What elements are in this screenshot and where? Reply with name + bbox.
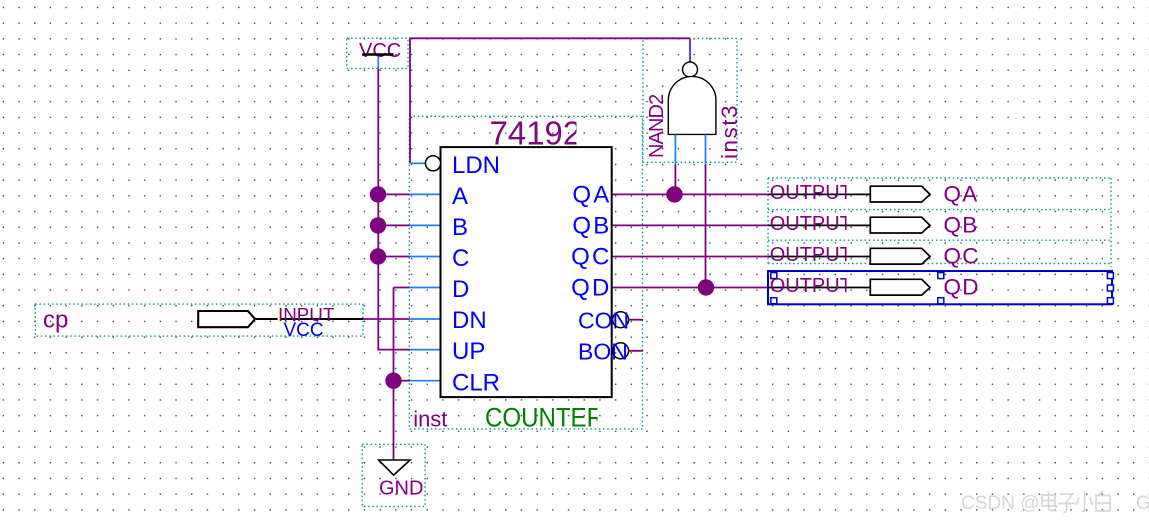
svg-text:NAND2: NAND2 [646, 94, 668, 158]
svg-text:VCC: VCC [359, 40, 401, 62]
svg-text:A: A [452, 183, 468, 210]
NAND2 gate inst3 [668, 62, 716, 134]
svg-text:VCC: VCC [284, 320, 324, 341]
pin stub CLR [410, 380, 441, 382]
pin stub D [410, 287, 441, 289]
svg-text:inst3: inst3 [717, 104, 742, 159]
CON inversion bubble [613, 312, 629, 328]
VCC pin stub [377, 56, 379, 69]
wire cp to DN [363, 318, 410, 320]
wire NAND input1 to QA node [674, 165, 676, 195]
svg-text:QA: QA [572, 182, 611, 209]
watermark CSDN [961, 491, 1149, 514]
ground symbol GND [379, 460, 424, 499]
output pin QD (selected) [768, 271, 1112, 304]
pin stub BON [629, 350, 643, 352]
pin stub C [410, 256, 441, 258]
svg-text:D: D [452, 276, 469, 303]
wire A row [378, 193, 410, 195]
selection box OUTPUT QA QB QC [768, 178, 1111, 267]
svg-text:BON: BON [578, 338, 628, 364]
selection box GND [362, 444, 425, 506]
wire VCC vertical to A,B,C and UP [378, 69, 409, 350]
selection box input cp [35, 304, 363, 336]
svg-text:OUTPUT: OUTPUT [770, 182, 852, 204]
chip title 74192 [490, 114, 582, 151]
junction node QD [698, 279, 714, 295]
svg-text:74192: 74192 [490, 114, 582, 151]
selection handles QD [771, 273, 1114, 304]
svg-text:OUTPUT: OUTPUT [770, 213, 852, 235]
NAND2 input stub 2 (blue) [705, 134, 707, 164]
svg-text:B: B [452, 214, 468, 241]
junction node QA [666, 186, 682, 202]
junction node CLR [385, 373, 401, 389]
wire QC [612, 256, 768, 258]
chip type COUNTER [485, 403, 604, 433]
pin stub A [410, 193, 441, 195]
wire NAND input2 to QD node [705, 165, 707, 288]
NAND2 input stub 1 (blue) [674, 134, 676, 164]
wire GND vertical to D and CLR [394, 288, 410, 461]
pin stub DN [410, 318, 441, 320]
svg-text:COUNTER: COUNTER [485, 403, 604, 433]
svg-text:OUTPUT: OUTPUT [770, 244, 852, 266]
LDN inversion bubble [425, 156, 440, 171]
selection box 74192 [409, 116, 642, 429]
svg-text:UP: UP [452, 338, 485, 365]
svg-text:QC: QC [944, 244, 980, 269]
wire QB [612, 224, 768, 226]
chip 74192 body [441, 147, 612, 397]
svg-text:cp: cp [43, 306, 68, 333]
svg-text:LDN: LDN [452, 152, 500, 179]
pin stub UP [410, 349, 441, 351]
svg-text:QD: QD [571, 275, 611, 302]
wire C row [378, 256, 410, 258]
wire NAND output to LDN [410, 38, 690, 163]
wire B row [378, 224, 410, 226]
NAND2 output pin stub [689, 39, 691, 62]
pin stub B [410, 224, 441, 226]
pin stub CON [629, 319, 643, 321]
svg-text:CLR: CLR [452, 369, 500, 396]
selection box VCC symbol [347, 38, 408, 68]
svg-text:inst: inst [413, 407, 447, 432]
svg-text:OUTPUT: OUTPUT [770, 275, 852, 297]
junction node B [370, 217, 386, 233]
output pin QA [768, 182, 979, 207]
svg-text:DN: DN [452, 307, 487, 334]
svg-text:QC: QC [571, 244, 611, 271]
input pin cp [43, 304, 363, 341]
svg-text:GND: GND [379, 477, 423, 499]
output pin QB [768, 213, 979, 238]
BON inversion bubble [613, 343, 629, 359]
wire QA [612, 193, 768, 195]
svg-text:QB: QB [944, 213, 979, 238]
wire QD [612, 287, 768, 289]
svg-text:QA: QA [944, 182, 979, 207]
VCC power symbol [359, 40, 401, 62]
svg-text:QB: QB [572, 213, 611, 240]
selection box NAND2 [643, 38, 737, 162]
output pin QC [768, 244, 980, 269]
junction node A [370, 186, 386, 202]
svg-text:QD: QD [944, 275, 980, 300]
pin stub LDN blue [410, 162, 426, 164]
svg-text:C: C [452, 245, 469, 272]
svg-text:G: G [1136, 493, 1149, 514]
svg-text:CON: CON [578, 307, 629, 333]
junction node C [370, 248, 386, 264]
svg-text:CSDN @: CSDN @ [961, 493, 1039, 514]
